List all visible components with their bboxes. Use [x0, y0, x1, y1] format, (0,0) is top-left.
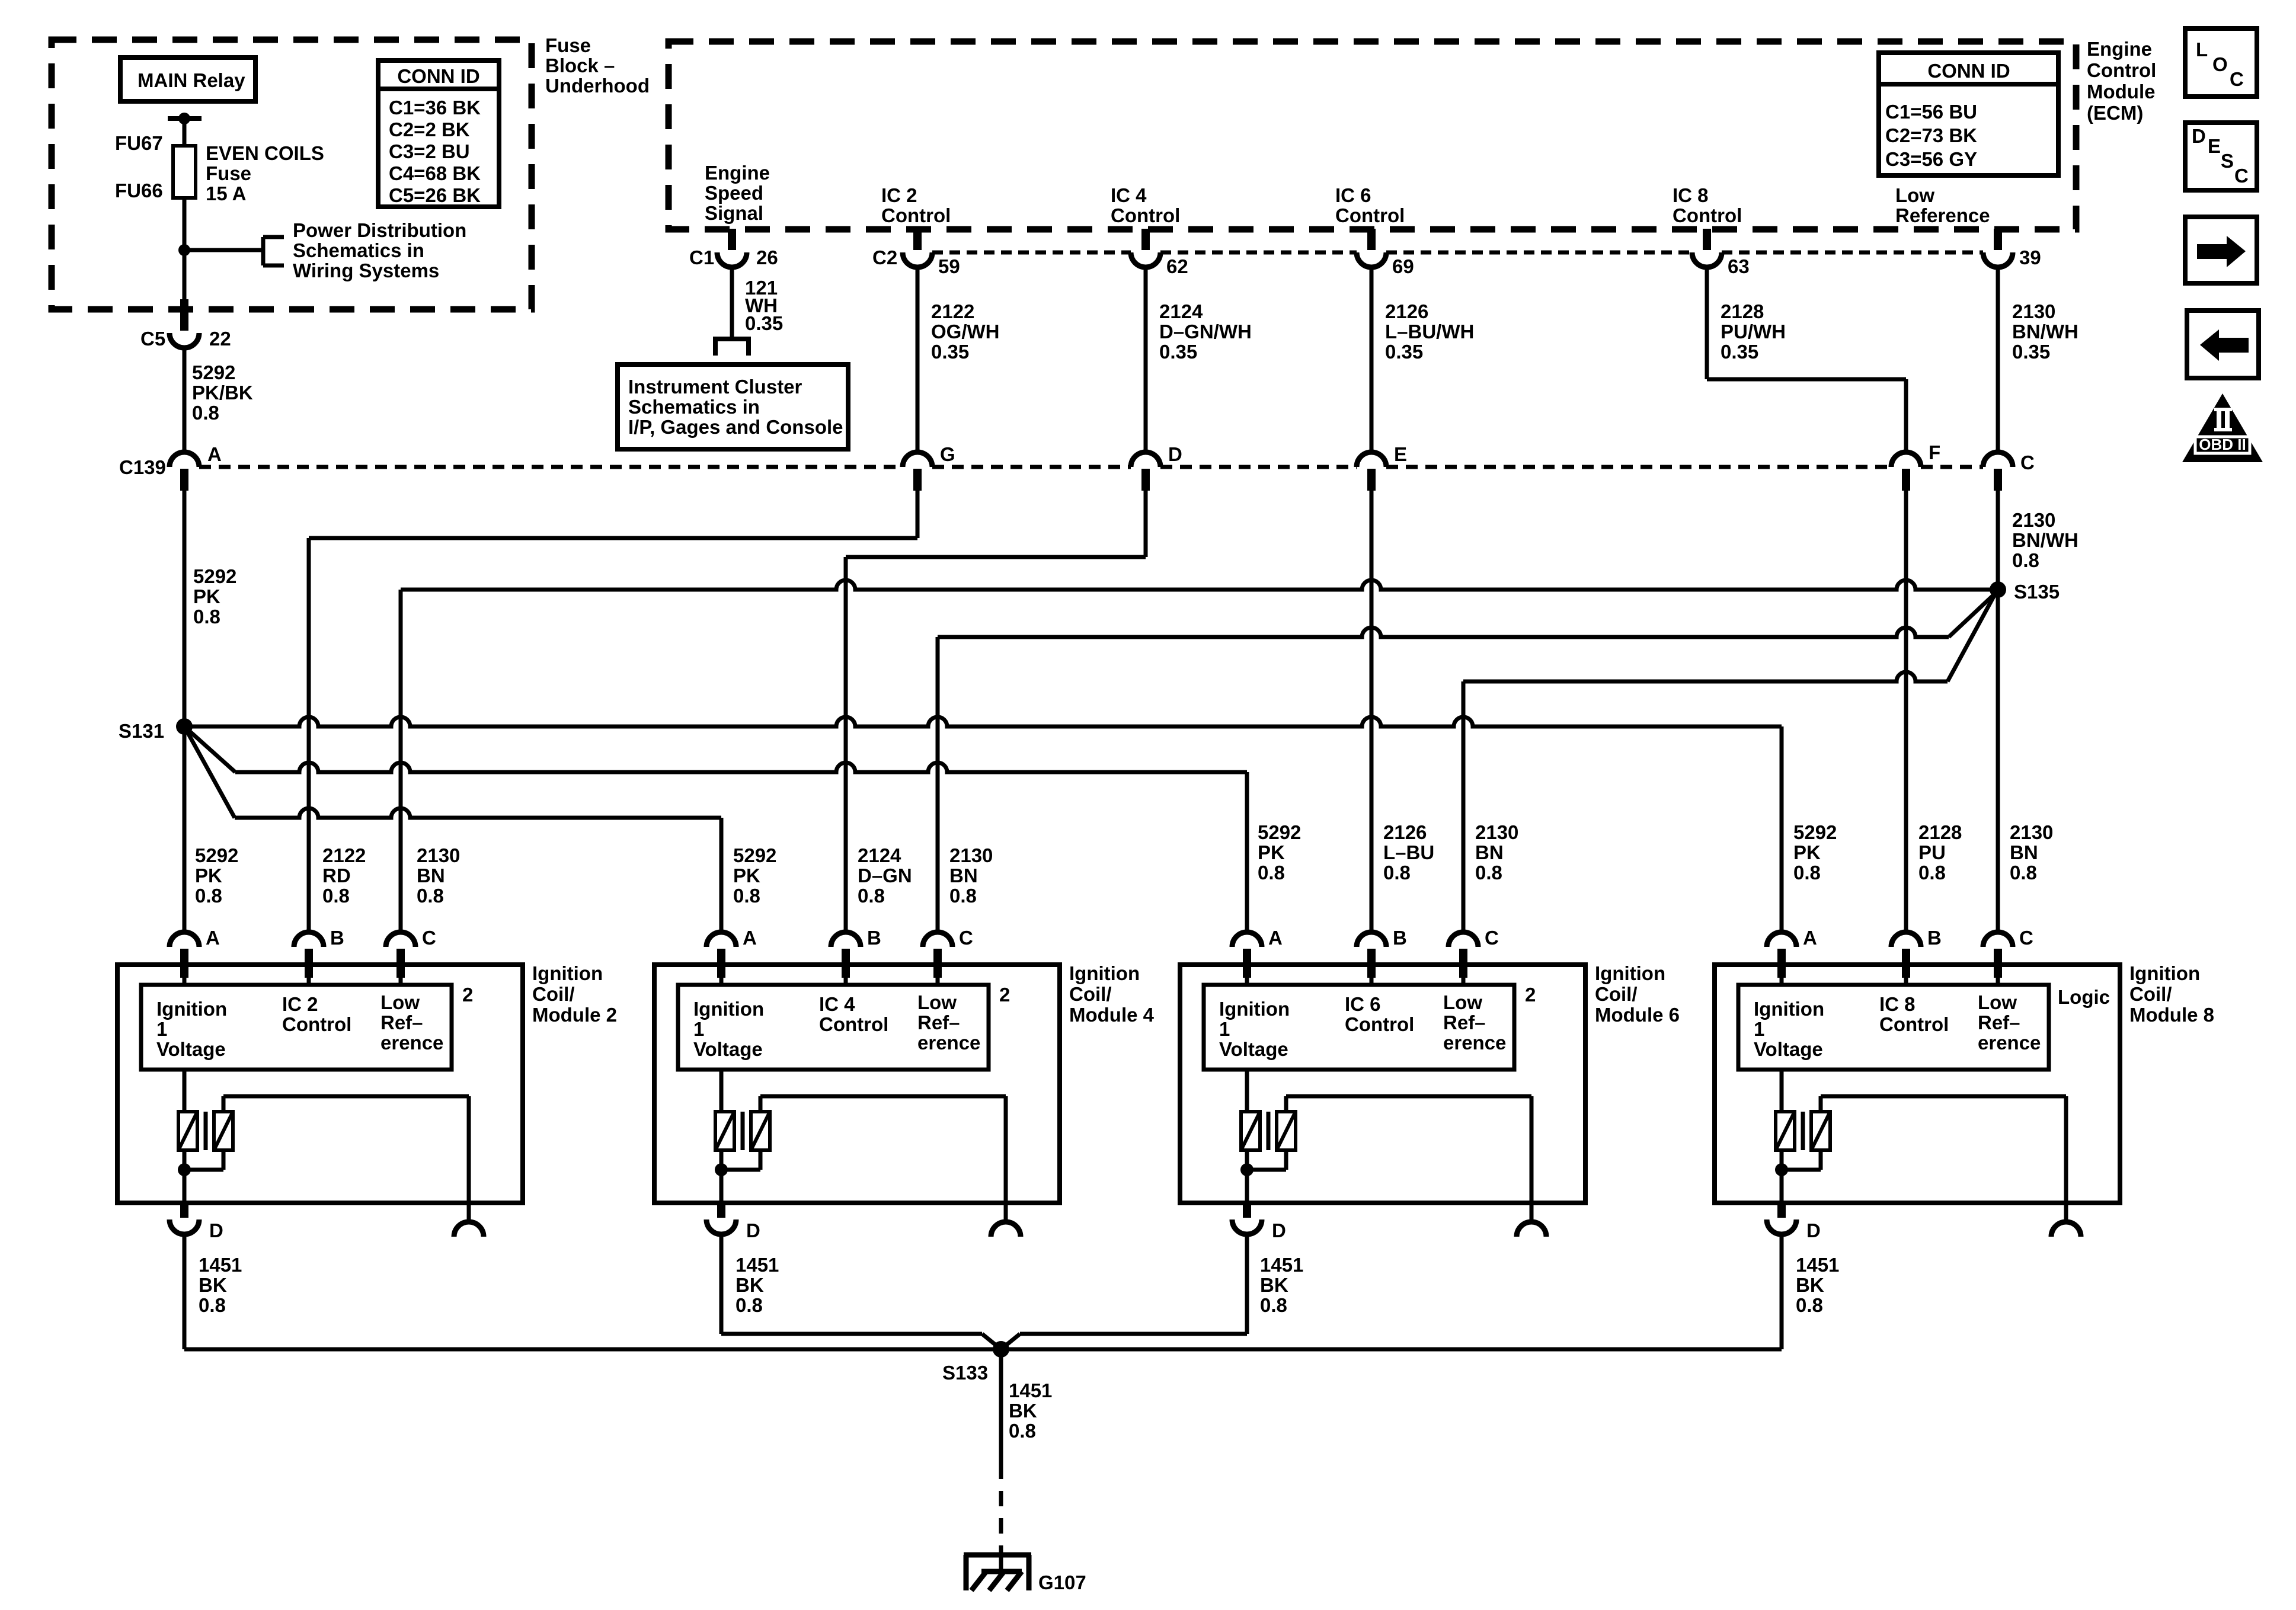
svg-text:IC 6: IC 6	[1335, 184, 1371, 206]
svg-text:PK: PK	[1258, 841, 1285, 863]
svg-text:5292: 5292	[195, 844, 238, 866]
svg-text:Underhood: Underhood	[545, 75, 650, 97]
svg-text:Coil/: Coil/	[2129, 983, 2172, 1005]
svg-text:D: D	[1806, 1219, 1821, 1241]
svg-text:5292: 5292	[193, 565, 236, 587]
wire 5292 PK C139 A down to S131 and module 2 pin A	[183, 489, 187, 932]
svg-text:0.8: 0.8	[322, 885, 350, 907]
splice S135	[1990, 581, 2006, 598]
wire 1451 BK S133 to ground	[999, 1349, 1003, 1464]
connector C139 cavity G arc	[903, 452, 932, 467]
svg-text:1: 1	[693, 1018, 704, 1040]
svg-text:26: 26	[756, 247, 778, 268]
connector C139 cavity F stub	[1902, 469, 1910, 491]
svg-text:Ref–: Ref–	[380, 1012, 423, 1033]
connector C139 cavity C stub	[1994, 469, 2002, 491]
svg-text:2128: 2128	[1721, 300, 1764, 322]
off-page fork to instrument cluster	[713, 337, 751, 341]
svg-text:IC 2: IC 2	[881, 184, 917, 206]
ECM connector C2 dotted line	[932, 251, 1131, 255]
svg-text:0.8: 0.8	[2010, 862, 2037, 884]
svg-text:Speed: Speed	[705, 182, 763, 204]
svg-text:C3=2 BU: C3=2 BU	[389, 140, 470, 162]
svg-text:2130: 2130	[2010, 821, 2053, 843]
svg-text:Ref–: Ref–	[1443, 1012, 1486, 1033]
svg-text:IC 6: IC 6	[1345, 993, 1381, 1015]
icon LOC box	[2185, 28, 2257, 97]
wire coil common junction module 8	[1780, 1150, 1784, 1203]
svg-text:Control: Control	[881, 204, 951, 226]
coil core line module 8	[1801, 1112, 1805, 1150]
ignition coil/module 4 inner terminal box	[678, 985, 989, 1070]
wire 5292 PK branch S131 to module 6 pin A	[184, 726, 235, 772]
svg-text:C: C	[2234, 165, 2249, 187]
svg-text:Ref–: Ref–	[917, 1012, 960, 1033]
svg-text:Control: Control	[1335, 204, 1405, 226]
svg-text:Control: Control	[1673, 204, 1742, 226]
svg-text:Voltage: Voltage	[1219, 1038, 1288, 1060]
svg-text:Fuse: Fuse	[206, 162, 251, 184]
svg-text:C2=2 BK: C2=2 BK	[389, 119, 470, 140]
svg-text:Control: Control	[819, 1013, 888, 1035]
fuse block - underhood dashed enclosure	[52, 40, 532, 309]
svg-text:Logic: Logic	[2058, 986, 2110, 1008]
connector C5 arc	[170, 333, 199, 348]
svg-text:D–GN: D–GN	[858, 865, 912, 886]
svg-text:D: D	[1272, 1219, 1286, 1241]
svg-text:0.8: 0.8	[733, 885, 760, 907]
wire 2130 BN branch to module 4 pin C	[1949, 593, 1996, 637]
svg-text:C1=56 BU: C1=56 BU	[1885, 101, 1977, 123]
svg-text:F: F	[1929, 441, 1940, 463]
svg-text:Ignition: Ignition	[1219, 998, 1290, 1020]
svg-text:Low: Low	[1895, 184, 1934, 206]
ignition coil/module 8 pin A arc	[1767, 932, 1796, 947]
svg-text:Ignition: Ignition	[1595, 962, 1665, 984]
svg-text:C: C	[959, 927, 973, 949]
svg-text:CONN ID: CONN ID	[1927, 60, 2010, 82]
svg-text:C139: C139	[119, 456, 166, 478]
svg-text:BN/WH: BN/WH	[2012, 321, 2078, 343]
wire 1451 BK module 6 D to S133	[1245, 1234, 1249, 1334]
svg-text:IC 8: IC 8	[1673, 184, 1709, 206]
ignition coil/module 4 pin A arc	[706, 932, 736, 947]
svg-text:A: A	[1268, 927, 1283, 949]
wire 2128 from F to module 8 pin B	[1904, 489, 1908, 932]
svg-text:FU67: FU67	[115, 132, 163, 154]
svg-text:0.8: 0.8	[1260, 1294, 1287, 1316]
svg-text:erence: erence	[917, 1032, 980, 1054]
ignition coil/module 8 pin B arc	[1891, 932, 1921, 947]
svg-text:(ECM): (ECM)	[2087, 102, 2143, 124]
svg-text:39: 39	[2019, 247, 2041, 268]
svg-text:C3=56 GY: C3=56 GY	[1885, 148, 1977, 170]
ECM pin 59 connector C2 arc	[903, 252, 932, 267]
svg-text:Control: Control	[1879, 1013, 1949, 1035]
svg-text:RD: RD	[322, 865, 351, 886]
svg-text:2124: 2124	[1159, 300, 1203, 322]
ignition coil/module 8 pin D arc	[1767, 1219, 1796, 1234]
ECM pin 62 arc	[1131, 252, 1160, 267]
svg-text:G107: G107	[1038, 1571, 1086, 1593]
coil secondary winding module 6	[1277, 1112, 1296, 1150]
svg-text:0.35: 0.35	[1721, 341, 1758, 363]
svg-text:Power Distribution: Power Distribution	[293, 219, 466, 241]
svg-text:MAIN Relay: MAIN Relay	[137, 69, 245, 91]
ignition coil/module 4 pin C arc	[923, 932, 952, 947]
spark plug output connector module 2	[454, 1222, 484, 1237]
coil secondary winding module 2	[214, 1112, 233, 1150]
ignition coil/module 6 pin C arc	[1448, 932, 1478, 947]
icon OBD II triangle	[2182, 393, 2263, 462]
wire 1451 BK module 2 D to ground bus	[183, 1234, 187, 1349]
svg-text:Block –: Block –	[545, 55, 615, 76]
svg-text:B: B	[1927, 927, 1942, 949]
svg-text:1451: 1451	[736, 1254, 779, 1276]
connector C5 pin 22 stub	[180, 299, 188, 331]
svg-text:L–BU/WH: L–BU/WH	[1385, 321, 1474, 343]
svg-text:erence: erence	[1443, 1032, 1506, 1054]
svg-text:CONN ID: CONN ID	[397, 65, 479, 87]
svg-text:Engine: Engine	[2087, 38, 2152, 60]
svg-text:0.8: 0.8	[193, 606, 220, 628]
svg-text:0.35: 0.35	[745, 312, 783, 334]
wire 2126 from E to module 6 pin B	[1370, 489, 1374, 932]
svg-text:Voltage: Voltage	[693, 1038, 763, 1060]
ignition coil/module 8 outer box	[1715, 965, 2120, 1203]
svg-text:Ref–: Ref–	[1978, 1012, 2020, 1033]
svg-text:1451: 1451	[199, 1254, 242, 1276]
wire main relay to fuse FU67	[183, 119, 187, 146]
svg-text:Coil/: Coil/	[532, 983, 575, 1005]
svg-text:Reference: Reference	[1895, 204, 1990, 226]
svg-text:0.8: 0.8	[1258, 862, 1285, 884]
svg-text:E: E	[2208, 135, 2221, 157]
svg-text:C5=26 BK: C5=26 BK	[389, 184, 481, 206]
wire 5292 PK branch S131 to module 8 pin A	[184, 717, 1782, 726]
svg-text:Coil/: Coil/	[1069, 983, 1112, 1005]
spark plug output connector module 4	[991, 1222, 1021, 1237]
svg-text:OG/WH: OG/WH	[931, 321, 999, 343]
svg-text:1451: 1451	[1260, 1254, 1303, 1276]
svg-text:D: D	[2192, 125, 2206, 147]
svg-text:1: 1	[1754, 1018, 1764, 1040]
ignition coil/module 4 pin D arc	[706, 1219, 736, 1234]
main relay pin tick and junction dot	[168, 116, 202, 121]
svg-text:0.35: 0.35	[931, 341, 969, 363]
svg-text:15 A: 15 A	[206, 183, 246, 204]
ECM pin 63 arc	[1692, 252, 1722, 267]
svg-text:BN/WH: BN/WH	[2012, 529, 2078, 551]
svg-text:D: D	[746, 1219, 760, 1241]
svg-text:62: 62	[1166, 255, 1188, 277]
svg-text:B: B	[867, 927, 881, 949]
svg-text:2122: 2122	[931, 300, 974, 322]
svg-text:1451: 1451	[1009, 1379, 1052, 1401]
svg-text:G: G	[940, 443, 955, 465]
svg-text:L–BU: L–BU	[1383, 841, 1434, 863]
bracket to power distribution schematics	[261, 237, 266, 265]
svg-text:Fuse: Fuse	[545, 34, 591, 56]
coil core line module 2	[204, 1112, 208, 1150]
splice S133	[993, 1341, 1009, 1358]
svg-text:Low: Low	[1978, 991, 2017, 1013]
ignition coil/module 4 pin D stub	[717, 1203, 725, 1218]
svg-text:Low: Low	[1443, 991, 1482, 1013]
connector C139 cavity G stub	[913, 469, 922, 491]
wire coil common junction module 6	[1245, 1150, 1249, 1203]
connector C139 cavity A stub	[180, 469, 188, 491]
ECM pin 59 connector C2 stub	[913, 229, 922, 250]
coil primary winding module 8	[1776, 1112, 1795, 1150]
svg-text:Schematics in: Schematics in	[293, 239, 424, 261]
svg-text:0.35: 0.35	[1385, 341, 1423, 363]
icon back arrow box	[2187, 311, 2259, 378]
svg-text:2122: 2122	[322, 844, 366, 866]
svg-text:Low: Low	[380, 991, 420, 1013]
ignition coil/module 2 inner terminal box	[141, 985, 452, 1070]
svg-text:Control: Control	[282, 1013, 351, 1035]
svg-text:E: E	[1394, 443, 1407, 465]
fuse EVEN COILS 15A	[173, 146, 196, 198]
wire 1451 BK module 4 D to S133	[720, 1234, 724, 1334]
connector C139 cavity E stub	[1367, 469, 1376, 491]
ECM pin 69 arc	[1357, 252, 1386, 267]
wire ignition voltage to coil primary module 2	[183, 1070, 187, 1112]
ECM pin 39 stub	[1994, 229, 2002, 250]
svg-text:PK: PK	[733, 865, 760, 886]
ignition coil/module 6 pin A arc	[1232, 932, 1262, 947]
svg-text:Voltage: Voltage	[1754, 1038, 1823, 1060]
svg-text:2130: 2130	[417, 844, 460, 866]
svg-text:59: 59	[938, 255, 960, 277]
ignition coil/module 2 pin D stub	[180, 1203, 188, 1218]
wire ignition voltage to coil primary module 6	[1245, 1070, 1249, 1112]
svg-text:Module 2: Module 2	[532, 1004, 617, 1026]
svg-text:2: 2	[1525, 984, 1536, 1006]
svg-text:2126: 2126	[1385, 300, 1428, 322]
wire 2128 PU/WH from pin 63 jog to C139 F	[1705, 267, 1709, 379]
ignition coil/module 2 pin A arc	[170, 932, 199, 947]
ignition coil/module 6 outer box	[1180, 965, 1585, 1203]
svg-text:D: D	[209, 1219, 223, 1241]
wire 2126 L-BU/WH from pin 69 to C139 E	[1370, 267, 1374, 452]
icon DESC box	[2185, 123, 2257, 190]
svg-text:C1: C1	[689, 247, 714, 268]
wire coil secondary to spark output module 6	[1284, 1096, 1288, 1112]
svg-text:A: A	[207, 443, 222, 465]
svg-text:BN: BN	[2010, 841, 2038, 863]
ECM pin 62 stub	[1141, 229, 1150, 250]
ignition coil/module 2 pin C arc	[386, 932, 415, 947]
junction dot power distribution tap	[178, 244, 190, 256]
icon forward arrow box	[2185, 217, 2257, 283]
svg-text:C2=73 BK: C2=73 BK	[1885, 124, 1977, 146]
svg-text:1: 1	[1219, 1018, 1230, 1040]
svg-text:Ignition: Ignition	[532, 962, 603, 984]
svg-text:S131: S131	[119, 720, 164, 742]
svg-text:B: B	[1393, 927, 1407, 949]
connector C139 cavity E arc	[1357, 452, 1386, 467]
ignition coil/module 6 pin D arc	[1232, 1219, 1262, 1234]
svg-text:0.8: 0.8	[1796, 1294, 1823, 1316]
svg-text:Engine: Engine	[705, 162, 770, 184]
svg-text:Ignition: Ignition	[693, 998, 764, 1020]
ignition coil/module 2 pin B arc	[294, 932, 324, 947]
svg-text:Coil/: Coil/	[1595, 983, 1638, 1005]
svg-text:0.8: 0.8	[949, 885, 977, 907]
svg-text:C2: C2	[872, 247, 897, 268]
svg-text:PK/BK: PK/BK	[192, 382, 253, 404]
ignition coil/module 6 pin B arc	[1357, 932, 1386, 947]
svg-text:Control: Control	[1111, 204, 1180, 226]
wire 121 WH engine speed signal	[730, 267, 734, 339]
svg-text:B: B	[330, 927, 344, 949]
svg-text:BK: BK	[1260, 1274, 1288, 1296]
svg-text:0.8: 0.8	[199, 1294, 226, 1316]
wire fuse to C5 with power-distribution tap	[183, 198, 187, 302]
wire 2124 D-GN/WH from pin 62 to C139 D	[1144, 267, 1148, 452]
ECM pin 26 connector C1 stub	[728, 229, 736, 250]
svg-text:5292: 5292	[1258, 821, 1301, 843]
svg-text:Ignition: Ignition	[156, 998, 227, 1020]
svg-text:Module 8: Module 8	[2129, 1004, 2214, 1026]
svg-text:Instrument Cluster: Instrument Cluster	[628, 376, 802, 398]
svg-text:0.8: 0.8	[858, 885, 885, 907]
svg-text:2130: 2130	[2012, 509, 2055, 531]
coil primary winding module 2	[178, 1112, 197, 1150]
svg-text:L: L	[2196, 39, 2208, 60]
svg-text:IC 4: IC 4	[1111, 184, 1147, 206]
svg-text:0.8: 0.8	[417, 885, 444, 907]
svg-text:PK: PK	[1793, 841, 1821, 863]
svg-text:2128: 2128	[1918, 821, 1962, 843]
svg-text:Ignition: Ignition	[2129, 962, 2200, 984]
svg-text:S135: S135	[2014, 581, 2060, 603]
svg-text:BK: BK	[199, 1274, 227, 1296]
svg-text:Control: Control	[2087, 59, 2156, 81]
svg-text:Ignition: Ignition	[1754, 998, 1824, 1020]
svg-text:Module: Module	[2087, 81, 2155, 103]
svg-text:C1=36 BK: C1=36 BK	[389, 97, 481, 119]
svg-text:BN: BN	[1475, 841, 1504, 863]
engine control module dashed enclosure	[669, 41, 2076, 229]
wire coil common junction module 4	[720, 1150, 724, 1203]
svg-text:PK: PK	[193, 585, 220, 607]
svg-text:2: 2	[999, 984, 1010, 1006]
svg-text:S: S	[2221, 150, 2234, 172]
ECM pin 39 arc	[1983, 252, 2013, 267]
svg-text:BK: BK	[1796, 1274, 1824, 1296]
svg-text:A: A	[1803, 927, 1817, 949]
coil secondary winding module 8	[1811, 1112, 1830, 1150]
svg-text:PU/WH: PU/WH	[1721, 321, 1786, 343]
svg-text:Wiring Systems: Wiring Systems	[293, 260, 439, 281]
svg-text:C4=68 BK: C4=68 BK	[389, 162, 481, 184]
ignition coil/module 4 pin B arc	[831, 932, 861, 947]
wire coil secondary to spark output module 4	[759, 1096, 763, 1112]
svg-text:22: 22	[209, 328, 231, 350]
svg-text:O: O	[2212, 53, 2228, 75]
coil secondary winding module 4	[751, 1112, 770, 1150]
wire coil secondary to spark output module 2	[222, 1096, 226, 1112]
connector C139 cavity C arc	[1983, 452, 2013, 467]
table CONN ID (fuse block)	[378, 60, 499, 207]
wire 2130 BN/WH from pin 39 to C139 C	[1996, 267, 2000, 452]
coil primary winding module 6	[1241, 1112, 1260, 1150]
ignition coil/module 8 pin D stub	[1777, 1203, 1786, 1218]
svg-text:1451: 1451	[1796, 1254, 1839, 1276]
svg-text:5292: 5292	[1793, 821, 1837, 843]
svg-text:erence: erence	[1978, 1032, 2041, 1054]
svg-text:0.8: 0.8	[2012, 549, 2039, 571]
svg-text:IC 2: IC 2	[282, 993, 318, 1015]
svg-text:A: A	[206, 927, 220, 949]
relay K MAIN Relay box	[120, 57, 255, 101]
svg-text:1: 1	[156, 1018, 167, 1040]
svg-text:0.8: 0.8	[192, 402, 219, 424]
svg-text:69: 69	[1392, 255, 1414, 277]
ignition coil/module 8 pin C arc	[1983, 932, 2013, 947]
coil core line module 6	[1267, 1112, 1271, 1150]
ignition coil/module 6 pin D stub	[1243, 1203, 1251, 1218]
svg-text:D: D	[1168, 443, 1182, 465]
svg-text:2124: 2124	[858, 844, 901, 866]
svg-text:PU: PU	[1918, 841, 1946, 863]
spark plug output connector module 8	[2051, 1222, 2081, 1237]
svg-text:PK: PK	[195, 865, 222, 886]
svg-text:D–GN/WH: D–GN/WH	[1159, 321, 1252, 343]
wire tap to bracket	[184, 248, 263, 252]
svg-text:BN: BN	[949, 865, 978, 886]
svg-text:Low: Low	[917, 991, 957, 1013]
svg-text:0.35: 0.35	[2012, 341, 2050, 363]
svg-text:BK: BK	[736, 1274, 764, 1296]
svg-text:2130: 2130	[1475, 821, 1518, 843]
svg-text:Schematics in: Schematics in	[628, 396, 760, 418]
ignition coil/module 4 outer box	[654, 965, 1060, 1203]
svg-text:BN: BN	[417, 865, 445, 886]
svg-text:FU66: FU66	[115, 180, 163, 201]
svg-text:C: C	[422, 927, 436, 949]
ECM pin 26 connector C1 arc	[717, 252, 747, 267]
wire 5292 PK/BK from C5 to C139	[183, 348, 187, 452]
svg-text:A: A	[743, 927, 757, 949]
svg-text:OBD II: OBD II	[2199, 436, 2246, 453]
wire dashed to G107	[999, 1464, 1003, 1555]
wire coil secondary to spark output module 8	[1819, 1096, 1823, 1112]
connector C139 dashed line	[199, 465, 903, 469]
wire 5292 PK branch S131 to module 4 pin A	[184, 726, 235, 818]
svg-text:2130: 2130	[2012, 300, 2055, 322]
svg-text:63: 63	[1728, 255, 1750, 277]
svg-text:C: C	[1485, 927, 1499, 949]
spark plug output connector module 6	[1517, 1222, 1546, 1237]
svg-text:0.8: 0.8	[1475, 862, 1502, 884]
ground G107 symbol	[964, 1553, 1031, 1558]
svg-text:0.35: 0.35	[1159, 341, 1197, 363]
svg-text:Signal: Signal	[705, 202, 763, 224]
connector C139 cavity A arc	[170, 452, 199, 467]
svg-text:Ignition: Ignition	[1069, 962, 1140, 984]
ignition coil/module 8 inner terminal box	[1738, 985, 2049, 1070]
svg-text:Voltage: Voltage	[156, 1038, 226, 1060]
svg-text:0.8: 0.8	[1383, 862, 1411, 884]
wire 2130 BN low reference bus to module 2 pin C	[401, 580, 1990, 590]
wire 1451 BK ground bus to S133 and module 8 D	[184, 1347, 1782, 1352]
svg-text:0.8: 0.8	[1793, 862, 1821, 884]
connector C139 cavity D stub	[1141, 469, 1150, 491]
